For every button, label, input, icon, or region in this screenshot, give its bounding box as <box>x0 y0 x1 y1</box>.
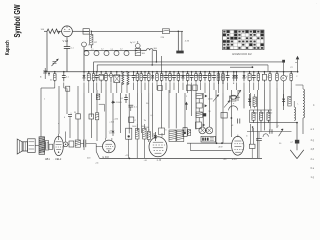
svg-text:4,8: 4,8 <box>311 148 315 151</box>
tube V5 2A3 <box>232 135 244 156</box>
wire vertical V14 <box>119 93 121 133</box>
box comp right of jack <box>69 141 74 147</box>
wire vertical V28 <box>215 90 217 143</box>
wire tube to box <box>72 30 83 32</box>
box second level a <box>158 86 162 91</box>
resistor R30 <box>253 94 256 108</box>
box second level c <box>193 85 197 91</box>
component K30 on main bus <box>199 71 202 90</box>
wire riser b <box>151 50 153 65</box>
margin note <box>317 2 318 5</box>
output transformer T4 <box>39 137 49 155</box>
wire vertical V2 <box>58 86 60 134</box>
wire left elbow <box>41 87 67 89</box>
label 4.35 <box>185 41 190 43</box>
component K16 on main bus <box>140 71 143 93</box>
value label small <box>71 113 73 115</box>
svg-text:1 g: 1 g <box>311 176 315 179</box>
value label small <box>121 98 125 100</box>
bus line B2 <box>97 65 268 72</box>
svg-text:· UEL2: · UEL2 <box>54 158 62 161</box>
wire vertical V4 <box>69 119 71 138</box>
circle component at top of riser <box>82 42 92 47</box>
value label <box>198 77 200 79</box>
caption Symbol GW (rotated) <box>12 4 22 38</box>
value label <box>296 76 298 78</box>
value label small <box>87 158 91 160</box>
cap on bus131 <box>270 129 272 134</box>
svg-text:a.a: a.a <box>111 49 114 51</box>
caption Kapsch (rotated) <box>5 40 11 55</box>
wire vertical V10 <box>96 90 98 113</box>
wire vertical V22 <box>175 93 177 128</box>
component K48 on main bus <box>281 71 287 90</box>
box with dot <box>126 128 132 158</box>
wire drop x261 <box>260 123 262 132</box>
svg-text:A.W: A.W <box>219 146 223 149</box>
component K25 on main bus <box>177 71 180 93</box>
svg-text:1 J3: 1 J3 <box>157 159 162 162</box>
margin note <box>311 176 315 179</box>
component K19 on main bus <box>151 71 154 93</box>
component K10 on main bus <box>109 71 113 93</box>
value label small <box>44 99 46 101</box>
wire vertical V30 <box>230 90 232 137</box>
svg-text:a 1: a 1 <box>311 128 315 131</box>
choke L11 <box>296 85 305 134</box>
wire vertical V15 <box>128 93 130 133</box>
tube table caption <box>232 52 252 56</box>
resistor R2 (vertical at node A) <box>90 31 98 48</box>
label 2N <box>291 142 294 144</box>
wire coil-row bus <box>84 49 146 51</box>
box C22 <box>129 117 137 122</box>
value label small <box>298 104 300 106</box>
arrow diag mid2 <box>224 101 230 108</box>
resistor (x=97) <box>95 113 98 120</box>
value label small <box>144 120 147 122</box>
value label small <box>186 96 188 98</box>
label E303 <box>103 156 110 159</box>
svg-text:4/4 EM CKO 4/2: 4/4 EM CKO 4/2 <box>232 52 252 56</box>
svg-text:2.2: 2.2 <box>120 49 123 51</box>
component K7 on main bus <box>95 71 99 90</box>
component K49 on main bus <box>290 71 293 88</box>
svg-text:10000: 10000 <box>109 133 115 135</box>
value label <box>221 77 223 79</box>
svg-text:2.2: 2.2 <box>101 49 104 51</box>
tube V2 AB1/UEL2 <box>54 134 63 156</box>
label AB1 UEL2 <box>45 158 62 161</box>
coil L3 loop <box>94 51 99 56</box>
label +100 <box>109 122 115 124</box>
component K23 on main bus <box>169 71 172 93</box>
capacitor C20 <box>124 94 128 103</box>
box left of T3 <box>159 128 165 135</box>
svg-text:W: W <box>74 112 76 114</box>
diode D21 <box>282 94 285 106</box>
cap right mid <box>238 119 240 124</box>
wire vertical V1 <box>40 88 42 137</box>
value label <box>91 78 93 80</box>
svg-text:4g 5.2: 4g 5.2 <box>130 42 135 44</box>
wire ladder spine <box>198 99 200 131</box>
svg-text:+100: +100 <box>109 122 115 124</box>
component K8 on main bus <box>99 71 103 93</box>
wire corner x99-104 <box>99 104 105 111</box>
IF transformer T3 <box>169 130 184 142</box>
hook arc x265 <box>263 134 268 137</box>
resistor bank Rb <box>259 110 262 123</box>
wire vertical V39 <box>290 88 292 101</box>
wire y143 <box>187 142 232 144</box>
value label small <box>58 123 60 125</box>
wire vertical V21 <box>168 90 170 128</box>
component K18 on main bus <box>148 71 151 93</box>
choke L12 <box>294 101 295 120</box>
wire vertical V20 <box>161 93 163 128</box>
component K17 on main bus <box>143 71 147 90</box>
box ladder d <box>195 122 205 129</box>
wire vertical V11 <box>96 120 98 141</box>
arc M3 <box>229 106 238 111</box>
bottom bus <box>100 157 263 159</box>
svg-text:V A2: V A2 <box>63 39 69 43</box>
component K11 on main bus <box>114 71 120 93</box>
inductor L7 <box>146 48 157 50</box>
dot M4 <box>231 117 233 119</box>
coil row labels <box>91 49 123 51</box>
wire riser a <box>153 50 157 62</box>
label 1J3 <box>144 159 162 162</box>
coil L2 loop <box>84 51 89 56</box>
component K46 on main bus <box>269 71 272 90</box>
value label <box>143 77 145 79</box>
dot mid1 <box>112 131 114 133</box>
component K35 on main bus <box>222 71 224 84</box>
svg-text:4 g: 4 g <box>311 139 315 142</box>
wire tube-jack <box>63 143 69 145</box>
component K42 on main bus <box>248 71 251 93</box>
wire x250 pair <box>250 124 253 144</box>
box W (x=78) <box>74 112 80 119</box>
wire vertical V23 <box>184 93 186 132</box>
margin note <box>313 104 315 107</box>
component K34 on main bus <box>218 71 220 84</box>
component K14 on main bus <box>132 71 136 90</box>
component K32 on main bus <box>208 71 211 93</box>
label 10000 over E303 <box>109 133 115 135</box>
wire vertical V3 <box>66 88 68 114</box>
value label <box>246 77 248 79</box>
symbol small at 253 <box>252 126 254 131</box>
capacitor C21 <box>128 105 137 111</box>
component K45 on main bus <box>262 71 266 90</box>
wire vertical V36 <box>269 90 271 130</box>
component K26 on main bus <box>182 71 185 90</box>
antenna arrow (top right) <box>291 56 300 73</box>
value label small <box>269 113 272 115</box>
wire y150 <box>190 143 231 150</box>
arrow diag M2 <box>235 90 241 99</box>
component K33 on main bus <box>212 71 216 90</box>
value label <box>50 80 53 82</box>
svg-text:1000: 1000 <box>132 126 136 128</box>
tube table grid <box>223 30 265 50</box>
resistor R40 <box>47 142 52 150</box>
wire top-left feed <box>41 29 48 31</box>
svg-text:10000: 10000 <box>116 102 123 104</box>
component K9 on main bus <box>105 71 108 90</box>
component K6 on main bus <box>92 71 95 93</box>
box under x250 <box>249 144 255 158</box>
value label small <box>166 130 168 132</box>
resistor R41 1000 <box>132 124 139 158</box>
value label small <box>95 163 99 165</box>
bus line B4 seg1 <box>100 75 136 77</box>
diode D10 <box>111 101 115 104</box>
svg-text:Kapsch: Kapsch <box>5 40 11 55</box>
box second level b <box>187 85 191 91</box>
component K40 on main bus <box>235 71 238 90</box>
diode D20 <box>248 94 251 106</box>
wire vertical V7 <box>83 93 85 150</box>
capacitor C2 (black) <box>176 51 183 54</box>
coil L4 loop <box>104 51 109 56</box>
svg-text:500: 500 <box>262 113 265 115</box>
bus right top y110 <box>230 95 272 110</box>
hatch box small <box>188 130 191 136</box>
black tap on B1 <box>282 60 285 72</box>
jack circle <box>63 142 68 147</box>
bus line B2b <box>230 66 253 68</box>
component K28 on main bus <box>190 71 194 90</box>
ballast box <box>201 136 215 142</box>
coil L6 loop <box>124 51 129 56</box>
junction node A <box>91 31 93 33</box>
diode D12 <box>154 132 157 141</box>
wire ground drop <box>296 123 298 151</box>
bus right y131 <box>247 131 292 133</box>
arrow diag mid1 <box>213 95 219 102</box>
capacitor C40 <box>80 140 88 148</box>
arrow up (AGC) <box>185 102 188 110</box>
wire vertical V16 <box>136 93 138 131</box>
component K15 on main bus <box>136 71 139 93</box>
value label <box>287 76 289 78</box>
junction +15 <box>125 155 131 159</box>
svg-text:2 e: 2 e <box>311 158 315 161</box>
box (x=91) <box>89 114 94 119</box>
svg-text:1000: 1000 <box>141 126 145 128</box>
margin note <box>311 158 315 161</box>
wire vertical V9 <box>90 119 92 138</box>
wire vertical V37 <box>276 88 278 128</box>
wire vertical V8 <box>90 93 92 117</box>
wire antenna down <box>46 31 48 71</box>
value label small <box>262 113 265 115</box>
value label <box>119 76 121 78</box>
value label small <box>277 126 280 128</box>
value label <box>164 77 167 79</box>
capacitor C3 under tube <box>64 37 75 72</box>
hatch box comp <box>75 140 80 147</box>
component K37 on main bus <box>217 71 220 93</box>
wire to transformer <box>169 31 183 33</box>
component K31 on main bus <box>203 71 207 93</box>
terminal block <box>295 140 299 144</box>
wire vertical V25 <box>195 93 197 130</box>
resistor bank Ra <box>252 110 255 123</box>
component K5 on main bus <box>87 71 90 93</box>
value label small <box>246 136 248 138</box>
inductor L6 hatched <box>135 49 146 56</box>
wire vertical V34 <box>257 90 259 158</box>
bus line B4 seg2 <box>160 75 212 77</box>
wire vertical V31 <box>237 90 239 101</box>
value label small <box>208 99 213 101</box>
component K43 on main bus <box>252 71 256 90</box>
component K27 on main bus <box>186 71 189 93</box>
label +1000 <box>109 131 116 133</box>
inductor L1 (220) <box>161 29 170 39</box>
wire vertical V29 <box>222 93 224 143</box>
value label small <box>233 103 235 105</box>
wire to x96 <box>88 144 100 159</box>
svg-text:1000: 1000 <box>253 113 257 115</box>
capacitor C23 (x=70) <box>64 115 72 119</box>
wire vertical V5 <box>77 86 79 114</box>
wire vertical V12 <box>105 90 107 138</box>
wire vertical V27 <box>209 93 211 127</box>
wire vertical V26 <box>202 93 204 127</box>
trimmer C10 <box>130 41 140 48</box>
svg-text:500: 500 <box>269 113 272 115</box>
bus line B1 <box>94 61 284 63</box>
margin note <box>311 148 315 151</box>
value label small <box>231 125 234 127</box>
component K38 on main bus <box>222 71 225 93</box>
component K2 on main bus <box>54 71 57 88</box>
value label small <box>279 143 282 145</box>
arrow diag on bus131 <box>279 129 284 137</box>
label 2A3 <box>223 158 237 161</box>
component K39 on main bus <box>226 71 230 90</box>
box 10ohm <box>230 96 237 101</box>
component K20 on main bus <box>156 71 159 90</box>
resistor ladder c <box>196 112 206 118</box>
label 10000 <box>116 102 123 104</box>
wire vertical V17 <box>141 93 143 133</box>
value label small <box>253 113 257 115</box>
capacitor C1 block <box>83 29 89 34</box>
component K47 on main bus <box>276 71 279 88</box>
component K22 on main bus <box>164 71 168 90</box>
wire vertical V6 <box>77 119 79 140</box>
margin note <box>311 128 315 131</box>
component K24 on main bus <box>172 71 176 90</box>
wire vertical V18 <box>148 93 150 130</box>
wire tube left lead <box>96 145 102 147</box>
margin note <box>311 167 315 170</box>
component K4 on main bus <box>83 71 86 93</box>
bus right bottom y123 <box>250 110 298 124</box>
box ladder b <box>196 103 207 108</box>
component K29 on main bus <box>195 71 198 93</box>
wire riser c <box>161 56 163 72</box>
value label small <box>114 119 119 121</box>
resistor R42 1000 <box>141 124 146 158</box>
wire vertical V35 <box>263 90 265 130</box>
resistor ladder a <box>196 94 207 99</box>
wire coilrow to L7 <box>141 49 147 51</box>
svg-text:Symbol GW: Symbol GW <box>12 4 22 38</box>
svg-text:R: R <box>283 77 285 80</box>
wire B2 left drop <box>96 65 98 72</box>
resistor R1 (antenna series) <box>47 29 62 34</box>
trimmer arrow <box>52 59 59 66</box>
component K12 on main bus <box>121 71 124 93</box>
main bus B3 <box>44 71 296 73</box>
tube V3 E303 <box>103 138 116 153</box>
wire B1 left drop <box>93 62 95 72</box>
component K13 on main bus <box>126 71 129 93</box>
margin note <box>311 139 315 142</box>
wire vertical V19 <box>152 93 154 138</box>
box M1 <box>221 112 227 118</box>
value label <box>66 77 70 79</box>
wire above jack <box>65 132 67 142</box>
value label small <box>151 115 155 117</box>
speaker LS1 <box>17 139 27 154</box>
component K21 on main bus <box>160 71 163 93</box>
component K36 on main bus <box>232 71 235 84</box>
wire riser left of coil row <box>83 47 85 72</box>
svg-text:AB1: AB1 <box>45 158 50 161</box>
tube V1 VA2 (ballast) <box>62 26 73 37</box>
resistor R20 <box>96 94 99 100</box>
wire vertical V24 <box>191 90 193 116</box>
junction J1 <box>48 72 50 76</box>
speaker cone line <box>19 141 21 153</box>
value label small <box>146 103 149 105</box>
svg-text:6 a: 6 a <box>311 167 315 170</box>
wire top bus <box>91 30 162 32</box>
box second level d <box>66 86 70 91</box>
box with dot (mains) <box>183 128 187 137</box>
tube V4 1J3 <box>149 133 167 157</box>
value label <box>181 77 185 79</box>
label VA2 <box>63 39 69 43</box>
terminal a1 <box>40 68 47 79</box>
resistor R21 1000 <box>144 127 150 142</box>
wire vertical V38 <box>283 90 285 110</box>
cap small x259 <box>256 132 262 159</box>
label AW <box>219 146 223 149</box>
coil L5 loop <box>114 51 119 56</box>
svg-text:a.a: a.a <box>91 49 94 51</box>
component K44 on main bus <box>257 71 260 90</box>
resistor bank Rc <box>267 110 270 123</box>
wire vertical V33 <box>249 93 251 108</box>
motor symbol M1 (circled X pair) <box>199 127 213 134</box>
value label small <box>209 111 212 113</box>
transformer T1 primary pair <box>178 31 182 50</box>
wire speaker-transformer <box>35 144 39 146</box>
wire vertical V32 <box>243 93 245 108</box>
component K3 on main bus <box>62 71 66 88</box>
svg-text:2 A3: 2 A3 <box>232 158 237 161</box>
